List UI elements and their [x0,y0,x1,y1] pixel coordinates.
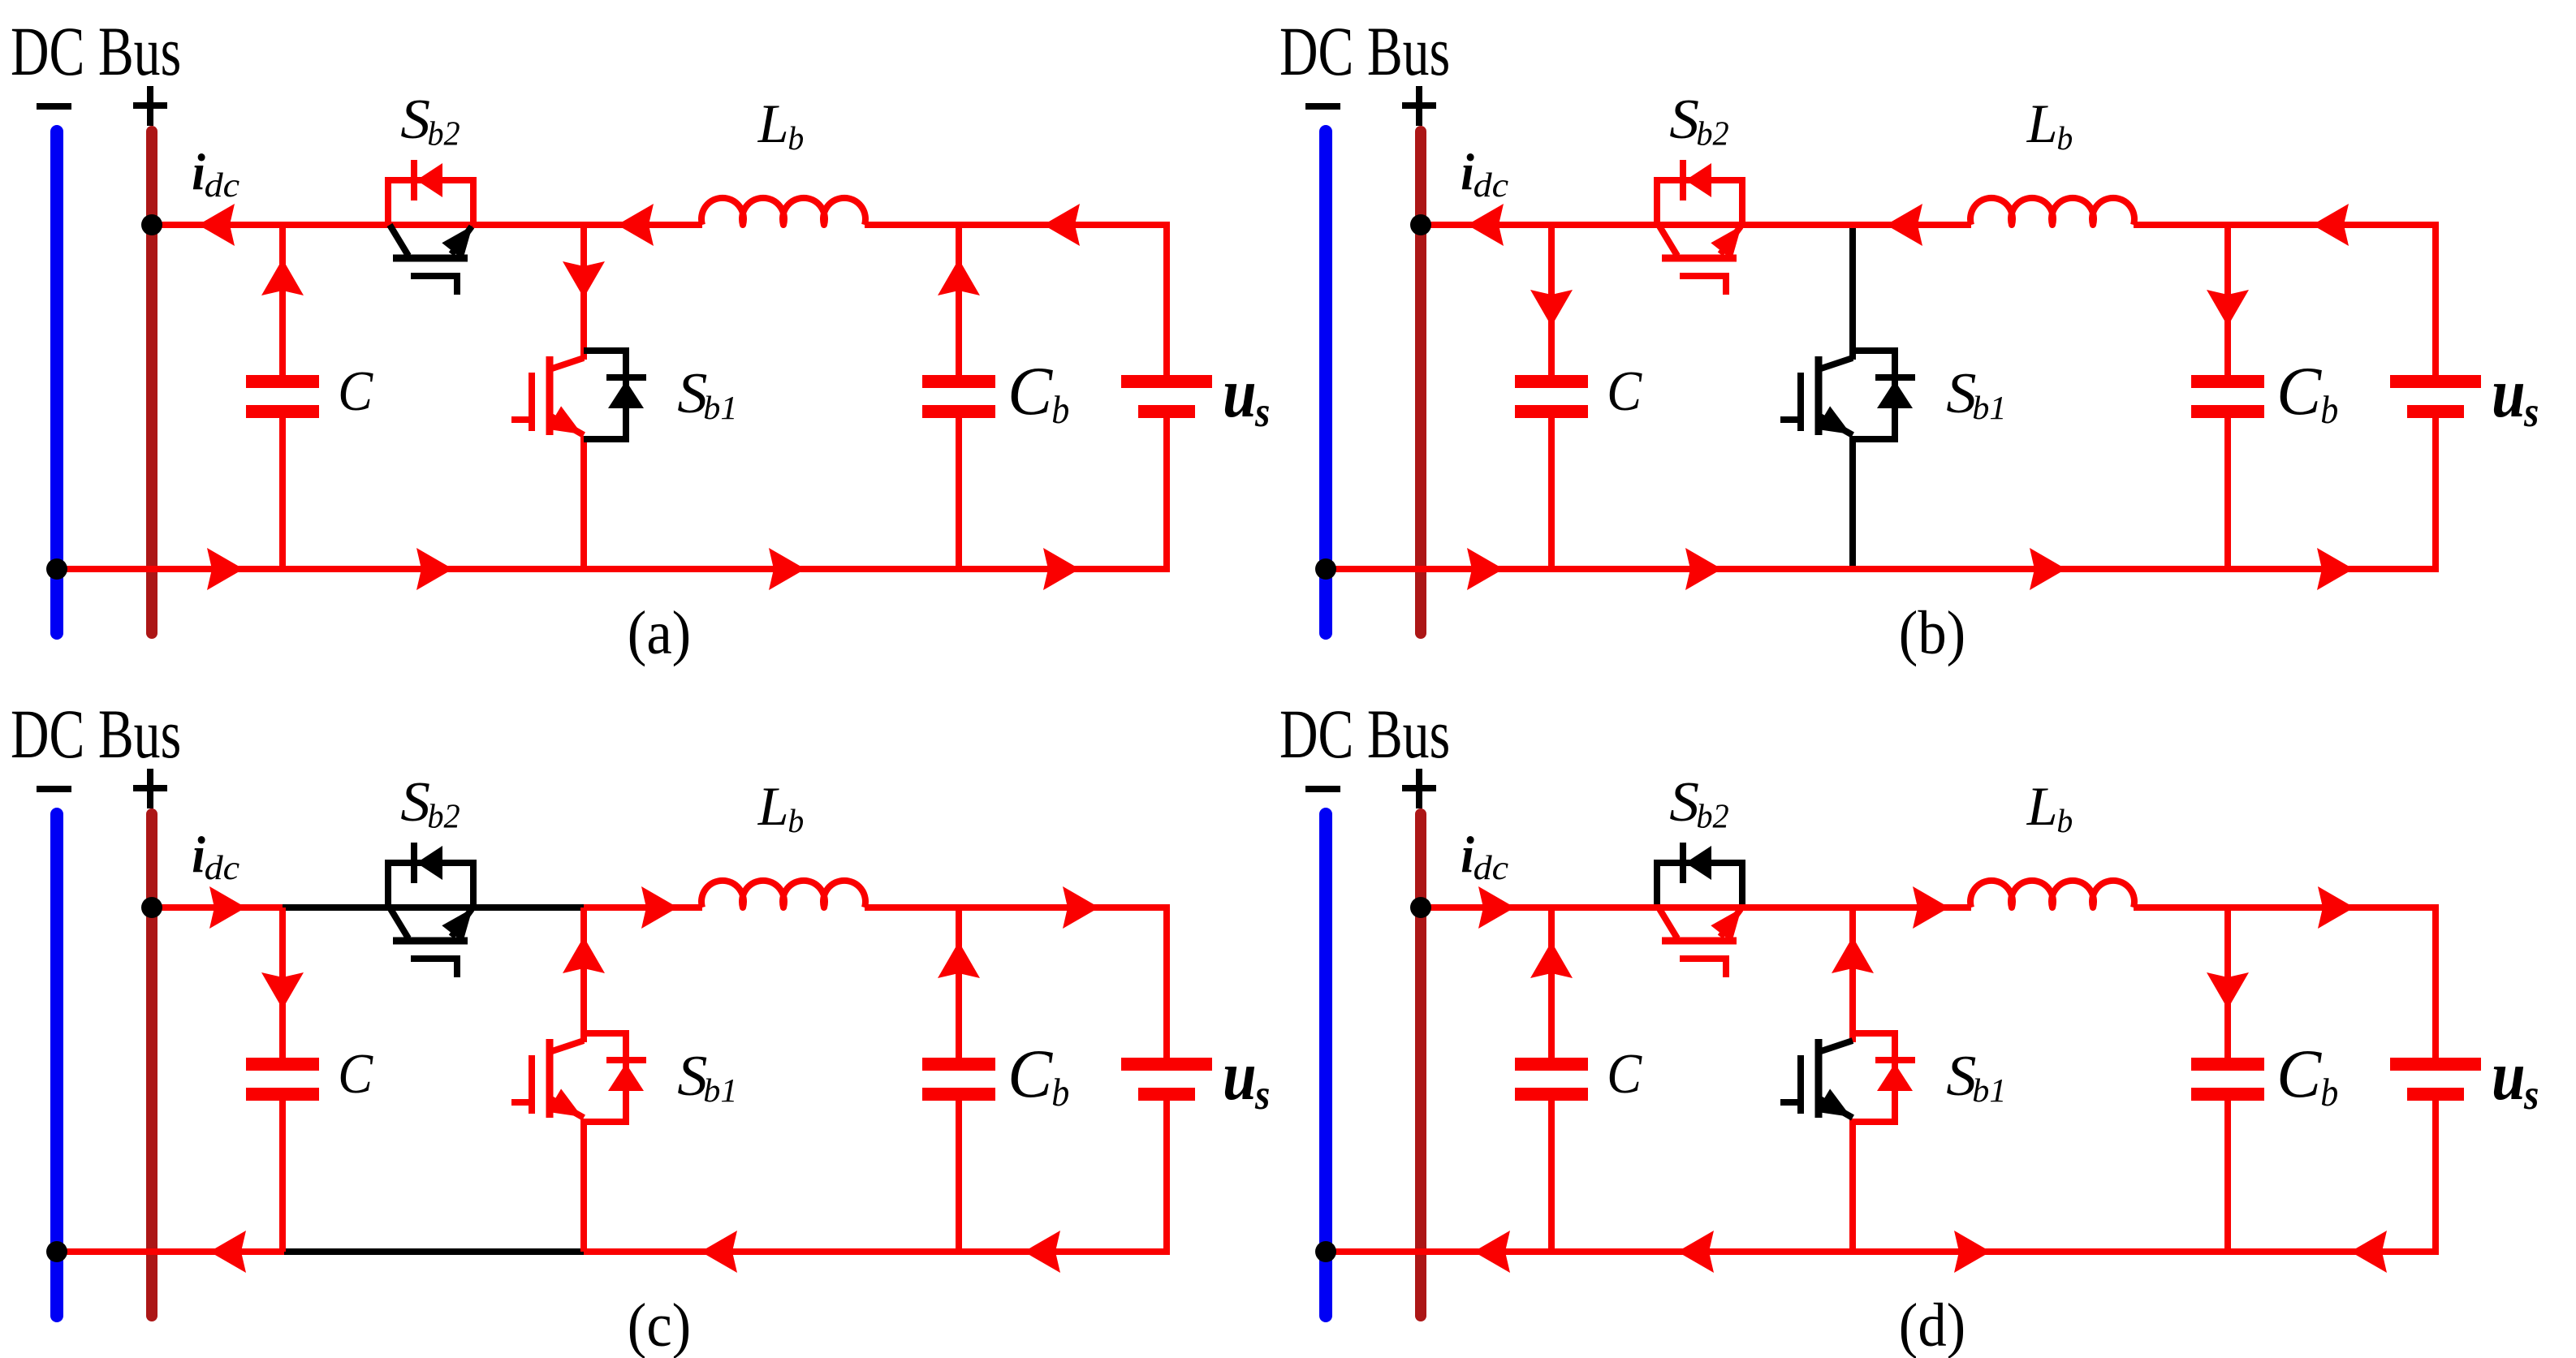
svg-text:DC Bus: DC Bus [1279,696,1450,773]
DC bus negative rail (a) [50,131,63,633]
current arrow C branch (b) [1530,290,1573,326]
svg-text:i: i [1461,144,1474,201]
S_b1 branch wire top (b) [1849,228,1856,360]
wire u_s branch bottom (b) [2429,418,2436,569]
DC bus positive rail (c) [146,814,157,1316]
svg-text:C: C [2276,1036,2322,1112]
source u_s (a) [1121,375,1212,388]
svg-text:i: i [192,144,205,201]
current arrow top wire 2 (a) [617,204,654,246]
svg-text:L: L [757,93,789,154]
wire u_s branch bottom (a) [1160,418,1167,569]
svg-text:b1: b1 [1972,390,2006,427]
S_b2 IGBT (c) [390,907,408,938]
node junction dot top (a) [141,214,162,235]
top wire (c) [152,904,283,911]
svg-text:i: i [192,827,205,884]
svg-text:DC Bus: DC Bus [1279,13,1450,90]
svg-text:b2: b2 [1696,114,1728,153]
DC bus negative rail (b) [1319,131,1332,633]
svg-text:(a): (a) [628,599,691,667]
wire u_s branch top (b) [2429,225,2436,375]
S_b2 antiparallel-diode loop (d) [1657,863,1742,904]
svg-text:C: C [1607,360,1642,423]
current arrow top wire 3 (d) [2318,886,2354,929]
svg-text:b: b [787,802,804,839]
inductor L_b (c) [701,881,865,907]
current arrow C_b branch (b) [2207,290,2249,326]
current arrow bottom wire 3 (d) [1954,1231,1991,1273]
capacitor C (a) [279,225,286,375]
source u_s (c) [1121,1058,1212,1071]
capacitor C_b (d) [2224,907,2231,1058]
S_b1 diode (b) [1875,374,1915,381]
current arrow C_b branch (a) [938,259,980,295]
svg-text:dc: dc [205,166,240,205]
current arrow bottom wire 1 (b) [1467,548,1504,590]
svg-text:b1: b1 [1972,1073,2006,1110]
svg-text:L: L [757,775,789,837]
plus terminal (c) [133,785,167,791]
current arrow top wire 2 (d) [1913,886,1949,929]
current arrow C branch (c) [261,972,304,1009]
svg-text:C: C [1008,1036,1053,1112]
svg-text:DC Bus: DC Bus [11,696,181,773]
S_b1 diode (d) [1875,1057,1915,1063]
svg-text:C: C [2276,353,2322,429]
current arrow bottom wire 2 (d) [1677,1231,1714,1273]
svg-text:C: C [338,360,373,423]
svg-text:S: S [1669,770,1699,834]
svg-text:u: u [2492,354,2526,433]
svg-text:DC Bus: DC Bus [11,13,181,90]
minus terminal (c) [37,786,71,792]
svg-text:C: C [1607,1042,1642,1106]
S_b1 gate (c) [529,1055,535,1114]
S_b1 gate (b) [1797,373,1804,431]
current arrow bottom wire 2 (c) [701,1231,737,1273]
S_b1 branch wire bottom (d) [1849,1119,1856,1252]
S_b2 gate (b) [1680,276,1726,295]
current arrow bottom wire 4 (d) [2350,1231,2387,1273]
inductor L_b (a) [701,198,865,225]
minus terminal (d) [1305,786,1340,792]
current arrow S_b1 branch (d) [1832,937,1874,973]
S_b2 IGBT (a) [390,225,408,256]
current arrow S_b1 branch (a) [563,261,605,298]
current arrow bottom wire 4 (b) [2317,548,2354,590]
DC bus negative rail (d) [1319,814,1332,1316]
top wire (d) [1421,904,1971,911]
wire u_s branch bottom (d) [2429,1101,2436,1252]
bottom wire (d) [1326,1248,2436,1255]
DC bus positive rail (b) [1415,131,1426,633]
S_b1 antiparallel-diode loop (d) [1853,1033,1895,1122]
minus terminal (a) [37,103,71,110]
current arrow bottom wire 2 (a) [416,548,453,590]
svg-text:b: b [787,119,804,157]
current arrow top wire 3 (a) [1043,204,1080,246]
source u_s (d) [2390,1058,2481,1071]
S_b2 diode (b) [1680,160,1686,200]
S_b1 branch wire top (c) [580,907,587,1042]
S_b2 diode (c) [411,843,417,883]
capacitor C (c) [279,907,286,1058]
svg-text:(c): (c) [628,1291,691,1358]
current arrow C_b branch (c) [938,942,980,978]
current arrow top wire 1 (a) [198,204,235,246]
capacitor C_b (b) [2224,225,2231,375]
S_b1 antiparallel-diode loop (a) [584,351,626,439]
S_b1 IGBT (a) [546,356,554,435]
current arrow top wire 1 (c) [209,886,246,929]
svg-text:b: b [2056,802,2073,839]
wire u_s branch top (d) [2429,907,2436,1058]
S_b2 gate (d) [1680,959,1726,977]
S_b1 antiparallel-diode loop (c) [584,1033,626,1122]
node junction dot top (d) [1410,897,1431,918]
svg-text:C: C [1008,353,1053,429]
current arrow top wire 1 (d) [1478,886,1515,929]
current arrow bottom wire 1 (d) [1474,1231,1510,1273]
plus terminal (b) [1402,102,1436,109]
S_b1 branch wire bottom (b) [1849,436,1856,566]
S_b1 antiparallel-diode loop (b) [1853,351,1895,439]
node junction dot bottom (b) [1315,558,1336,580]
current arrow bottom wire 2 (b) [1685,548,1722,590]
S_b2 antiparallel-diode loop (c) [388,863,473,907]
svg-text:b1: b1 [703,390,737,427]
svg-text:s: s [1254,387,1270,435]
svg-text:b2: b2 [427,797,460,835]
svg-text:S: S [400,88,430,151]
current arrow top wire 3 (c) [1063,886,1099,929]
current arrow C branch (d) [1530,942,1573,978]
S_b2 diode (a) [411,160,417,200]
inductor L_b (d) [1970,881,2134,907]
S_b1 IGBT (b) [1815,356,1823,435]
DC bus positive rail (d) [1415,814,1426,1316]
current arrow bottom wire 3 (b) [2030,548,2066,590]
DC bus negative rail (c) [50,814,63,1316]
svg-text:(b): (b) [1899,599,1965,667]
current arrow top wire 1 (b) [1467,204,1504,246]
svg-text:L: L [2026,775,2058,837]
wire u_s branch bottom (c) [1160,1101,1167,1252]
current arrow top wire 3 (b) [2312,204,2349,246]
S_b2 gate (c) [411,959,457,977]
current arrow C_b branch (d) [2207,972,2249,1009]
node junction dot bottom (d) [1315,1241,1336,1262]
svg-text:b2: b2 [427,114,460,153]
S_b1 gate (a) [529,373,535,431]
node junction dot top (b) [1410,214,1431,235]
current arrow bottom wire 1 (a) [207,548,244,590]
DC bus positive rail (a) [146,131,157,633]
capacitor C (d) [1548,907,1555,1058]
top wire (b) [1421,222,1971,228]
source u_s (b) [2390,375,2481,388]
S_b1 diode (a) [606,374,646,381]
svg-text:b2: b2 [1696,797,1728,835]
S_b2 IGBT (d) [1659,907,1677,938]
S_b2 gate (a) [411,276,457,295]
svg-text:i: i [1461,827,1474,884]
plus terminal (a) [133,102,167,109]
current arrow bottom wire 4 (a) [1043,548,1080,590]
current arrow bottom wire 1 (c) [209,1231,246,1273]
svg-text:b: b [2320,1071,2338,1115]
node junction dot bottom (c) [46,1241,67,1262]
current arrow C branch (a) [261,259,304,295]
top wire (a) [152,222,702,228]
S_b1 branch wire top (d) [1849,907,1856,1042]
svg-text:dc: dc [1474,166,1509,205]
S_b2 diode (d) [1680,843,1686,883]
bottom wire (a) [57,566,1167,572]
svg-text:u: u [2492,1037,2526,1115]
inductor L_b (b) [1970,198,2134,225]
S_b1 branch wire bottom (c) [580,1119,587,1252]
minus terminal (b) [1305,103,1340,110]
svg-text:dc: dc [1474,849,1509,887]
svg-text:S: S [1669,88,1699,151]
svg-text:s: s [1254,1070,1270,1118]
bottom wire (c) [57,1248,284,1255]
svg-text:C: C [338,1042,373,1106]
svg-text:u: u [1223,354,1257,433]
node junction dot bottom (a) [46,558,67,580]
svg-text:b: b [1051,388,1069,433]
node junction dot top (c) [141,897,162,918]
svg-text:b: b [2320,388,2338,433]
capacitor C_b (c) [956,907,962,1058]
current arrow top wire 2 (b) [1886,204,1922,246]
S_b2 IGBT (b) [1659,225,1677,256]
plus terminal (d) [1402,785,1436,791]
svg-text:b1: b1 [703,1073,737,1110]
S_b1 branch wire bottom (a) [580,436,587,569]
svg-text:dc: dc [205,849,240,887]
capacitor C (b) [1548,225,1555,375]
wire u_s branch top (c) [1160,907,1167,1058]
S_b1 IGBT (c) [546,1039,554,1118]
S_b1 branch wire top (a) [580,225,587,360]
capacitor C_b (a) [956,225,962,375]
bottom wire (b) [1326,566,2436,572]
S_b2 antiparallel-diode loop (a) [388,180,473,225]
S_b2 antiparallel-diode loop (b) [1657,180,1742,225]
svg-text:(d): (d) [1899,1291,1965,1358]
current arrow bottom wire 3 (c) [1024,1231,1060,1273]
svg-text:u: u [1223,1037,1257,1115]
S_b1 gate (d) [1797,1055,1804,1114]
S_b1 IGBT (d) [1815,1039,1823,1118]
svg-text:S: S [400,770,430,834]
svg-text:b: b [1051,1071,1069,1115]
current arrow top wire 2 (c) [641,886,678,929]
svg-text:b: b [2056,119,2073,157]
svg-text:s: s [2523,387,2539,435]
svg-text:L: L [2026,93,2058,154]
current arrow bottom wire 3 (a) [769,548,805,590]
current arrow S_b1 branch (c) [563,937,605,973]
svg-text:s: s [2523,1070,2539,1118]
S_b1 diode (c) [606,1057,646,1063]
wire u_s branch top (a) [1160,225,1167,375]
